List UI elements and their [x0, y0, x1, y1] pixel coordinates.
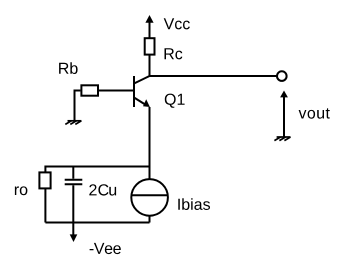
label vout [299, 108, 330, 119]
wire collector to output node [150, 75, 277, 77]
label Q1 [165, 94, 185, 108]
output terminal node [277, 71, 287, 81]
label Vcc [164, 18, 190, 29]
power -Vee arrow [70, 234, 78, 242]
label -Vee [90, 243, 121, 254]
vout arrow [280, 91, 288, 138]
resistor ro [39, 172, 50, 188]
wire top rail [45, 167, 149, 172]
wire base [99, 90, 135, 92]
capacitor 2Cu [65, 167, 83, 185]
label Rc [165, 48, 183, 59]
wire Rb to ground [75, 91, 81, 121]
ground (vout) [274, 137, 290, 141]
label ro [15, 186, 28, 195]
resistor Rc [145, 38, 155, 54]
wire ro to bottom rail [44, 188, 46, 223]
label 2Cu [89, 184, 116, 195]
ground (Rb) [65, 121, 81, 125]
transistor Q1 [134, 76, 150, 107]
wire emitter down [149, 107, 151, 179]
power Vcc arrow [145, 15, 153, 38]
wire current source to bottom rail [149, 216, 151, 223]
wire bottom rail [45, 222, 149, 224]
wire Rc to collector [149, 55, 151, 76]
current source Ibias [131, 179, 168, 216]
label Rb [59, 62, 78, 74]
label Ibias [178, 198, 210, 210]
wire capacitor to -Vee [72, 185, 74, 235]
resistor Rb [81, 85, 98, 95]
